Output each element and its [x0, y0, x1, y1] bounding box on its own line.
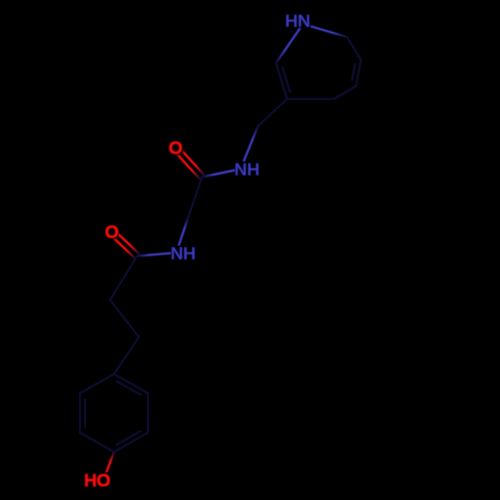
- svg-text:HN: HN: [285, 12, 310, 31]
- svg-text:HO: HO: [84, 471, 110, 490]
- svg-text:NH: NH: [171, 244, 196, 263]
- svg-text:O: O: [105, 222, 119, 241]
- svg-text:O: O: [169, 139, 183, 158]
- svg-text:NH: NH: [235, 160, 260, 179]
